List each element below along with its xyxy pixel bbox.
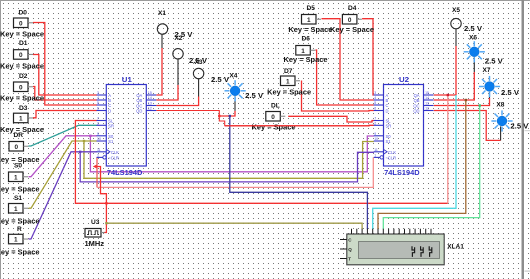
IC U1 74LS194D shift register — [97, 77, 157, 177]
svg-text:1: 1 — [307, 17, 311, 24]
switch D1 — [0, 40, 44, 71]
svg-text:C: C — [386, 103, 389, 108]
svg-text:Key = Space: Key = Space — [288, 27, 332, 34]
svg-text:Key = Space: Key = Space — [0, 219, 40, 226]
switch S0 — [0, 163, 40, 194]
switch D3 — [0, 105, 44, 134]
svg-text:U2: U2 — [399, 77, 409, 84]
wire stub arrow — [93, 165, 97, 169]
window border left — [0, 0, 1, 279]
wire S0 net bus to U2 S0 — [90, 136, 374, 172]
svg-text:5: 5 — [97, 101, 99, 105]
svg-text:X1: X1 — [158, 10, 166, 17]
svg-text:1: 1 — [97, 153, 99, 157]
svg-text:X3: X3 — [195, 59, 203, 66]
junction QB — [465, 99, 467, 101]
svg-text:QB: QB — [136, 98, 142, 103]
wire U1 QD staircase — [156, 111, 224, 126]
svg-text:2: 2 — [374, 121, 376, 125]
svg-text:11: 11 — [97, 148, 101, 152]
svg-text:14: 14 — [425, 96, 429, 100]
switch R — [0, 226, 40, 257]
wire D2 to U1 pin B — [33, 87, 97, 101]
svg-text:3: 3 — [97, 91, 99, 95]
svg-text:9: 9 — [374, 132, 376, 136]
wire X3 stem — [198, 79, 200, 97]
svg-text:D4: D4 — [348, 5, 357, 12]
svg-text:SR: SR — [108, 123, 114, 128]
svg-text:1: 1 — [14, 174, 18, 181]
junction QC — [479, 104, 481, 106]
indicator lamp X5 — [451, 7, 483, 33]
switch DL — [252, 103, 296, 132]
wire QA channel to XLA1 — [373, 95, 456, 229]
wire QD bus to U2 SR — [225, 124, 374, 127]
svg-text:5: 5 — [374, 101, 376, 105]
svg-text:D1: D1 — [19, 40, 28, 47]
svg-text:1: 1 — [301, 48, 305, 55]
svg-text:2.5 V: 2.5 V — [485, 59, 503, 66]
svg-text:QD: QD — [413, 109, 419, 114]
junction R net — [79, 151, 81, 153]
wire D5 to U2 pin B — [322, 19, 374, 100]
wire D0 to U1 pin C — [33, 23, 97, 106]
svg-text:R: R — [17, 226, 22, 233]
svg-text:DR: DR — [14, 132, 24, 139]
svg-text:Key = Space: Key = Space — [0, 250, 40, 257]
svg-text:U3: U3 — [91, 219, 100, 226]
junction S1 net — [83, 140, 85, 142]
svg-text:74LS194D: 74LS194D — [107, 170, 142, 177]
wire R net bus to U2 CLK — [80, 152, 374, 182]
wire DR to U1 SR — [29, 125, 97, 146]
junction S0 net — [89, 135, 91, 137]
svg-text:~CLR: ~CLR — [386, 155, 397, 160]
switch D2 — [0, 73, 44, 103]
window border top — [0, 0, 530, 1]
svg-text:Key = Space: Key = Space — [0, 64, 44, 71]
wire U2 QD to X8 — [434, 111, 501, 141]
wire X4 stem — [234, 96, 236, 111]
svg-text:0: 0 — [19, 20, 23, 27]
lit voltage probe X7 — [479, 67, 519, 97]
svg-text:X4: X4 — [229, 73, 237, 80]
wire U1 QA to X1 — [156, 48, 162, 95]
svg-text:DL: DL — [271, 103, 280, 110]
logic analyzer XLA1 — [340, 229, 464, 265]
svg-text:0: 0 — [14, 144, 18, 151]
svg-text:QD: QD — [136, 109, 142, 114]
wire U2 QC to X7 — [434, 98, 490, 106]
svg-text:14: 14 — [148, 96, 152, 100]
wire X6 stem — [473, 57, 475, 72]
svg-text:X5: X5 — [452, 7, 460, 14]
indicator lamp X3 — [193, 59, 229, 84]
wire D1 to U1 pin A — [33, 55, 97, 96]
svg-text:10: 10 — [374, 137, 378, 141]
svg-text:3: 3 — [374, 91, 376, 95]
svg-text:9: 9 — [97, 132, 99, 136]
svg-text:Key = Space: Key = Space — [330, 27, 374, 34]
svg-text:2.5 V: 2.5 V — [211, 77, 229, 84]
wire long red bus to U1 SL — [75, 121, 447, 204]
indicator lamp X2 — [173, 35, 208, 65]
svg-text:4: 4 — [374, 96, 376, 100]
wire QB channel to XLA1 — [378, 100, 466, 229]
svg-text:2.5 V: 2.5 V — [464, 26, 482, 33]
svg-text:0: 0 — [348, 17, 352, 24]
svg-text:D: D — [108, 109, 111, 114]
wire S1 net bus to U2 S1 — [84, 141, 374, 178]
clock source U3 1MHz — [85, 219, 105, 248]
wire QC channel to XLA1 — [383, 106, 479, 230]
svg-text:S1: S1 — [386, 139, 392, 144]
svg-text:CLK: CLK — [388, 150, 396, 155]
switch D5 — [288, 5, 332, 34]
wire S0 to U1 S0 — [29, 136, 97, 177]
svg-text:0: 0 — [19, 84, 23, 91]
wire branch to X4 — [219, 111, 235, 116]
svg-text:X6: X6 — [469, 35, 477, 42]
svg-text:74LS194D: 74LS194D — [384, 170, 420, 177]
junction olive — [105, 222, 107, 224]
junction QD net — [218, 115, 220, 117]
svg-text:CLK: CLK — [111, 150, 119, 155]
svg-text:D6: D6 — [302, 36, 311, 43]
svg-text:X8: X8 — [496, 102, 504, 109]
svg-text:T: T — [348, 257, 351, 262]
wire X1 stem — [161, 35, 163, 49]
switch D7 — [267, 68, 311, 97]
svg-text:Key = Space: Key = Space — [284, 57, 328, 64]
junction clock bus — [105, 202, 107, 204]
svg-text:7: 7 — [97, 117, 99, 121]
svg-text:D2: D2 — [19, 73, 28, 80]
svg-text:XLA1: XLA1 — [447, 244, 464, 251]
svg-text:12: 12 — [425, 107, 429, 111]
scrollbar separator — [522, 0, 525, 279]
switch DR — [0, 132, 40, 164]
svg-text:6: 6 — [97, 107, 99, 111]
svg-text:2: 2 — [97, 121, 99, 125]
svg-text:2.5 V: 2.5 V — [501, 90, 519, 97]
svg-text:6: 6 — [374, 107, 376, 111]
IC U2 74LS194D shift register — [374, 77, 434, 177]
junction QA — [447, 94, 449, 96]
wire X5 stem — [455, 29, 457, 46]
svg-text:2.5 V: 2.5 V — [245, 93, 263, 100]
wire U2 QB to X6 — [434, 72, 475, 100]
svg-text:D: D — [386, 109, 389, 114]
wire D4 to U2 pin A — [362, 19, 374, 95]
svg-text:12: 12 — [148, 107, 152, 111]
wire U1 QC to X3 — [156, 97, 198, 106]
svg-text:4: 4 — [97, 96, 99, 100]
switch D6 — [284, 36, 328, 65]
svg-text:2.5 V: 2.5 V — [510, 124, 528, 131]
svg-text:1: 1 — [14, 237, 18, 244]
svg-text:7: 7 — [374, 117, 376, 121]
wire X7 stem — [489, 92, 491, 98]
lit voltage probe X4 — [225, 73, 264, 102]
svg-text:15: 15 — [425, 91, 429, 95]
svg-text:D5: D5 — [307, 5, 316, 12]
svg-text:10: 10 — [97, 137, 101, 141]
wire U2 QA to X5 — [434, 46, 456, 95]
svg-text:X2: X2 — [174, 35, 182, 42]
wire S1 to U1 S1 — [29, 141, 97, 208]
svg-text:1: 1 — [19, 116, 23, 123]
wire X2 stem — [177, 59, 179, 85]
switch D0 — [0, 10, 44, 39]
svg-text:U1: U1 — [122, 77, 132, 84]
wire QA drop to bus — [447, 95, 449, 203]
wire CLR net bus to U2 CLR — [97, 157, 373, 187]
svg-text:0: 0 — [19, 52, 23, 59]
svg-text:13: 13 — [148, 102, 152, 106]
junction blue wire — [229, 115, 231, 117]
svg-text:15: 15 — [148, 91, 152, 95]
svg-text:QB: QB — [414, 98, 420, 103]
wire R to U1 CLK — [29, 152, 97, 239]
svg-text:1: 1 — [286, 78, 290, 85]
wire D3 to U1 pin D — [33, 111, 97, 118]
wire D6 to U2 pin C — [316, 50, 374, 105]
svg-text:D0: D0 — [19, 10, 28, 17]
wire U1 QB to X2 — [156, 85, 178, 100]
wire X8 stem — [500, 126, 502, 140]
svg-text:11: 11 — [374, 148, 378, 152]
wire DL to U2 SL — [288, 116, 374, 122]
wire U1 CLR drop — [96, 157, 98, 187]
indicator lamp X1 — [157, 10, 192, 39]
svg-text:Key = Space: Key = Space — [0, 187, 40, 194]
svg-text:~CLR: ~CLR — [108, 155, 119, 160]
lit voltage probe X8 — [491, 102, 528, 132]
wire D7 to U2 pin D — [302, 81, 374, 112]
svg-text:S0: S0 — [14, 163, 22, 170]
svg-text:Q: Q — [348, 247, 352, 252]
svg-text:X7: X7 — [483, 67, 491, 74]
svg-text:C: C — [108, 103, 111, 108]
svg-text:D7: D7 — [284, 68, 293, 75]
switch S1 — [0, 195, 40, 226]
switch D4 — [330, 5, 374, 34]
svg-text:D3: D3 — [19, 105, 28, 112]
svg-text:0: 0 — [271, 114, 275, 121]
svg-text:SR: SR — [386, 123, 392, 128]
lit voltage probe X6 — [464, 35, 503, 66]
svg-text:Key = Space: Key = Space — [267, 90, 311, 97]
wire QD bus overlay — [225, 125, 369, 127]
wire clock to XLA1 channel 1 — [106, 223, 362, 229]
svg-text:Key = Space: Key = Space — [0, 32, 44, 39]
svg-text:S1: S1 — [14, 195, 22, 202]
svg-text:Key = Space: Key = Space — [0, 96, 44, 103]
svg-text:13: 13 — [425, 102, 429, 106]
svg-text:S1: S1 — [108, 139, 114, 144]
svg-text:1: 1 — [14, 206, 18, 213]
svg-text:1MHz: 1MHz — [85, 241, 105, 248]
wire probe node to XLA1 channel — [230, 116, 368, 229]
wire U3 clock tap — [97, 167, 107, 233]
svg-text:1: 1 — [374, 153, 376, 157]
